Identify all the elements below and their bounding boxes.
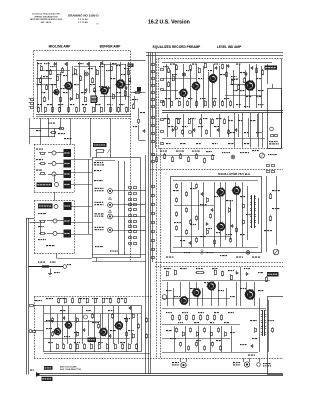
svg-text:TAPE RECORDER SERIES 1600X: TAPE RECORDER SERIES 1600X [30, 18, 63, 21]
svg-text:OSCILLATOR 78.5 kHz: OSCILLATOR 78.5 kHz [218, 172, 251, 176]
svg-text:MIC/LINE AMP: MIC/LINE AMP [49, 45, 72, 49]
svg-text:2.3.72 SH: 2.3.72 SH [78, 19, 88, 21]
svg-text:WIRING DIAGRAM FOR: WIRING DIAGRAM FOR [34, 15, 58, 18]
svg-text:AND CONN SELECTOR: AND CONN SELECTOR [60, 368, 82, 371]
svg-text:16.2 U.S. Version: 16.2 U.S. Version [148, 20, 190, 26]
svg-text:LEVEL IND AMP: LEVEL IND AMP [217, 45, 242, 49]
svg-text:Tandbergs Radiofabrikk A/S: Tandbergs Radiofabrikk A/S [32, 13, 60, 16]
svg-text:DRAWING NO 1580-D: DRAWING NO 1580-D [68, 13, 99, 17]
svg-text:2.1.73 AH: 2.1.73 AH [78, 21, 88, 24]
svg-text:EQUALIZED RECORD PREAMP: EQUALIZED RECORD PREAMP [153, 45, 202, 49]
svg-text:BUFFER AMP: BUFFER AMP [100, 45, 122, 49]
svg-text:MIC. JACK: MIC. JACK [41, 21, 52, 24]
